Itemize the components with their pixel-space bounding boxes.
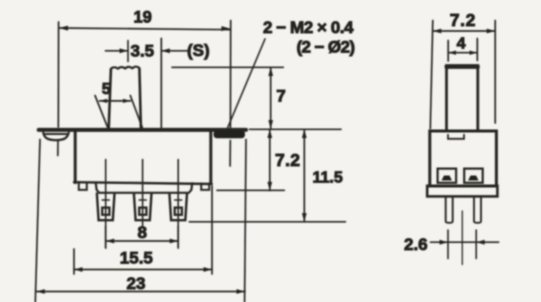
knob top extension line [172, 66, 283, 68]
label 23 [127, 274, 146, 293]
svg-text:3.5: 3.5 [131, 42, 155, 61]
svg-text:(2 − Ø2): (2 − Ø2) [297, 37, 356, 56]
terminal center line 1 [105, 160, 107, 249]
left corner tab [79, 183, 87, 190]
label 2-M2x0.4 [263, 18, 354, 37]
dimension 8 [106, 226, 179, 248]
label 19 [134, 8, 152, 26]
label 8 [138, 223, 147, 242]
plate level extension line [250, 128, 342, 130]
label 15.5 [120, 248, 153, 267]
terminal 3 [169, 193, 187, 220]
label 2.6 [404, 235, 428, 254]
dimension 3.5 [106, 41, 188, 62]
side window right [464, 169, 483, 183]
side pin right [474, 197, 481, 223]
side pin left [446, 197, 453, 223]
dimension 2.6 [431, 230, 499, 259]
right flange pad [214, 131, 246, 139]
svg-text:4: 4 [457, 36, 466, 53]
svg-text:2.6: 2.6 [404, 235, 428, 254]
dimension 7 [268, 67, 273, 129]
front body outline [74, 130, 212, 184]
svg-text:(S): (S) [187, 41, 210, 60]
side view knob [447, 66, 478, 132]
dimension 11.5 [302, 129, 307, 222]
dimension 4 [448, 39, 477, 62]
svg-text:15.5: 15.5 [120, 248, 153, 267]
label (S) [187, 41, 210, 60]
side base strip [427, 186, 497, 197]
svg-text:5: 5 [102, 81, 111, 98]
left flange pad [43, 133, 68, 140]
dimension 15.5 [74, 186, 212, 274]
label 7.2 side [450, 10, 476, 30]
svg-text:7.2: 7.2 [275, 150, 300, 170]
front knob [109, 67, 141, 129]
label 3.5 [131, 42, 155, 61]
dimension 19 [58, 21, 231, 167]
side view body [430, 131, 497, 186]
stroke line S [160, 38, 162, 128]
side window left [438, 169, 457, 183]
terminal center line 2 [142, 160, 144, 227]
right corner tab [201, 183, 209, 190]
body bottom extension line [217, 189, 284, 191]
label 2-dia2 [297, 37, 356, 56]
svg-text:2 − M2 × 0.4: 2 − M2 × 0.4 [263, 18, 354, 37]
label 4 [457, 36, 466, 53]
svg-text:7: 7 [276, 87, 285, 106]
side center line [461, 211, 463, 265]
svg-text:11.5: 11.5 [313, 170, 343, 187]
label 11.5 [313, 170, 343, 187]
terminal center line 3 [177, 160, 179, 249]
base strip [96, 183, 192, 193]
screw note leader [228, 39, 266, 128]
dimension 5 [95, 96, 142, 128]
terminal bottom extension line [189, 221, 345, 223]
label 7 [276, 87, 285, 106]
label 7.2 front [275, 150, 300, 170]
svg-text:7.2: 7.2 [450, 10, 476, 30]
front view mounting plate [39, 128, 246, 132]
svg-text:23: 23 [127, 274, 146, 293]
terminal 1 [97, 193, 115, 220]
terminal 2 [134, 193, 152, 220]
dimension 7.2 side [430, 21, 495, 129]
label 5 [102, 81, 111, 98]
svg-text:19: 19 [134, 8, 152, 26]
dimension 23 [35, 140, 246, 302]
svg-text:8: 8 [138, 223, 147, 242]
dimension 7.2 front [267, 129, 272, 190]
